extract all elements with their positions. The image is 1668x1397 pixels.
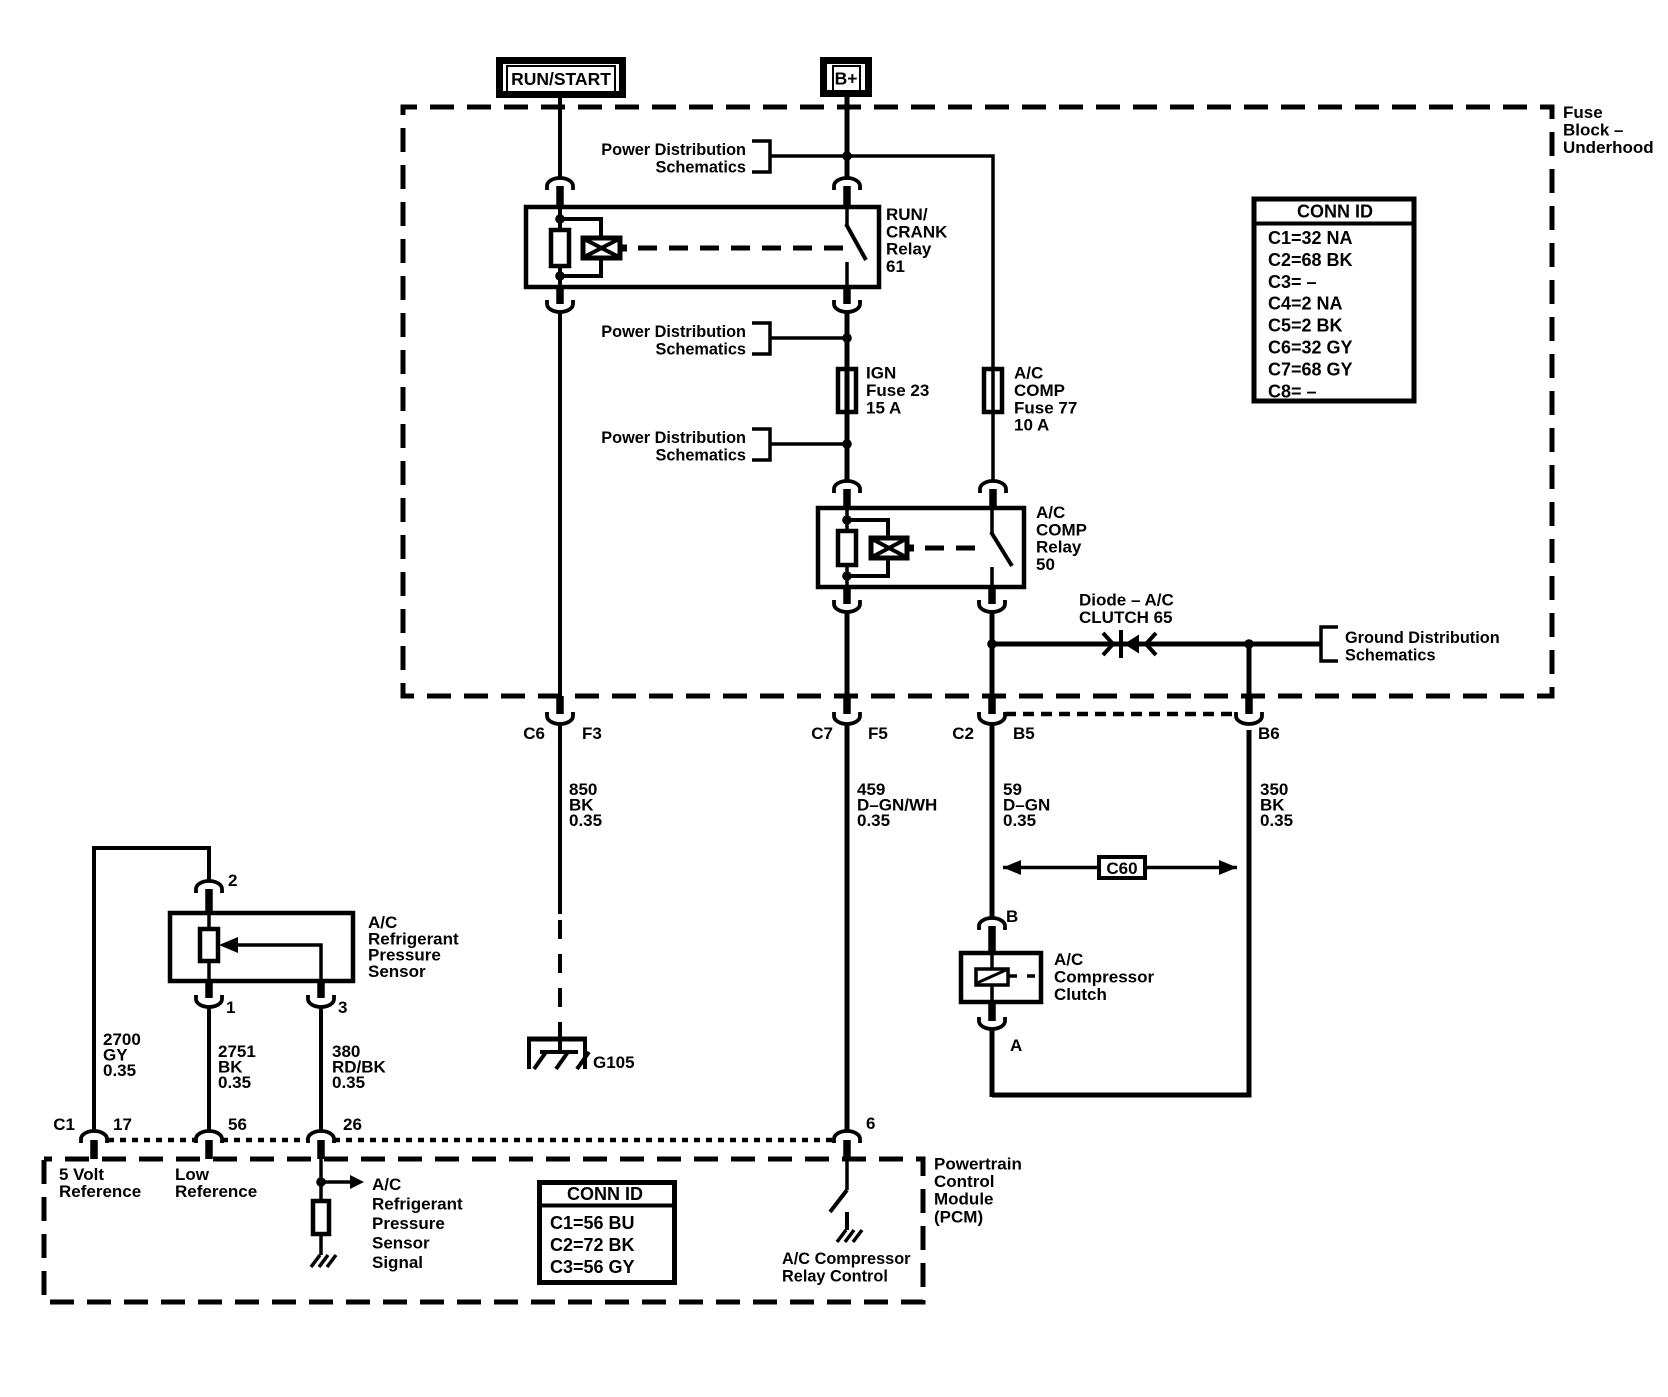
svg-text:Schematics: Schematics: [1345, 647, 1436, 665]
svg-text:C3= –: C3= –: [1268, 272, 1317, 292]
svg-text:26: 26: [343, 1115, 362, 1134]
svg-text:F5: F5: [868, 724, 888, 743]
svg-text:Diode – A/C: Diode – A/C: [1079, 591, 1174, 610]
svg-text:A/C: A/C: [1014, 364, 1043, 383]
svg-text:3: 3: [338, 998, 347, 1017]
svg-text:B5: B5: [1013, 724, 1035, 743]
svg-text:C8= –: C8= –: [1268, 381, 1317, 401]
svg-text:0.35: 0.35: [857, 811, 890, 830]
svg-text:C2=72 BK: C2=72 BK: [550, 1235, 635, 1255]
svg-text:Fuse: Fuse: [1563, 103, 1603, 122]
svg-text:Control: Control: [934, 1172, 994, 1191]
svg-text:B6: B6: [1258, 724, 1280, 743]
svg-text:B: B: [1006, 907, 1018, 926]
svg-text:CONN ID: CONN ID: [567, 1184, 643, 1204]
svg-text:0.35: 0.35: [332, 1073, 365, 1092]
svg-text:C6: C6: [523, 724, 545, 743]
svg-text:G105: G105: [593, 1053, 635, 1072]
svg-text:C4=2 NA: C4=2 NA: [1268, 294, 1343, 314]
svg-text:61: 61: [886, 257, 905, 276]
svg-text:Reference: Reference: [175, 1182, 257, 1201]
svg-text:Relay: Relay: [1036, 538, 1082, 557]
svg-text:C3=56 GY: C3=56 GY: [550, 1257, 635, 1277]
svg-text:IGN: IGN: [866, 364, 896, 383]
svg-text:A/C Compressor: A/C Compressor: [782, 1250, 911, 1268]
svg-text:17: 17: [113, 1115, 132, 1134]
svg-text:RUN/START: RUN/START: [511, 69, 611, 89]
svg-text:RUN/: RUN/: [886, 205, 928, 224]
svg-text:Fuse 23: Fuse 23: [866, 381, 929, 400]
svg-text:Relay: Relay: [886, 240, 932, 259]
svg-text:C5=2 BK: C5=2 BK: [1268, 316, 1343, 336]
svg-text:Power Distribution: Power Distribution: [601, 323, 746, 341]
svg-text:Pressure: Pressure: [372, 1214, 445, 1233]
svg-text:Sensor: Sensor: [368, 962, 426, 981]
svg-text:0.35: 0.35: [218, 1073, 251, 1092]
svg-text:B+: B+: [835, 69, 858, 89]
svg-text:Power Distribution: Power Distribution: [601, 141, 746, 159]
svg-text:Ground Distribution: Ground Distribution: [1345, 629, 1500, 647]
svg-text:Powertrain: Powertrain: [934, 1155, 1022, 1174]
svg-text:0.35: 0.35: [1003, 811, 1036, 830]
svg-text:C1=56 BU: C1=56 BU: [550, 1213, 635, 1233]
svg-text:Reference: Reference: [59, 1182, 141, 1201]
svg-text:A/C: A/C: [372, 1175, 401, 1194]
svg-text:F3: F3: [582, 724, 602, 743]
svg-text:Fuse 77: Fuse 77: [1014, 398, 1077, 417]
svg-text:A/C: A/C: [1054, 950, 1083, 969]
svg-text:C1=32 NA: C1=32 NA: [1268, 228, 1353, 248]
svg-text:C60: C60: [1106, 859, 1137, 878]
svg-text:COMP: COMP: [1014, 381, 1065, 400]
svg-text:Refrigerant: Refrigerant: [372, 1195, 463, 1214]
svg-text:C7: C7: [811, 724, 833, 743]
svg-text:CONN ID: CONN ID: [1297, 202, 1373, 222]
svg-text:A: A: [1010, 1036, 1022, 1055]
svg-text:Schematics: Schematics: [655, 159, 746, 177]
svg-text:15 A: 15 A: [866, 398, 901, 417]
svg-text:Relay Control: Relay Control: [782, 1268, 888, 1286]
svg-text:C1: C1: [53, 1115, 75, 1134]
svg-text:COMP: COMP: [1036, 520, 1087, 539]
svg-text:Compressor: Compressor: [1054, 967, 1155, 986]
svg-text:C2: C2: [952, 724, 974, 743]
svg-text:Underhood: Underhood: [1563, 138, 1654, 157]
svg-text:CLUTCH 65: CLUTCH 65: [1079, 608, 1173, 627]
svg-text:(PCM): (PCM): [934, 1207, 983, 1226]
svg-text:Block –: Block –: [1563, 121, 1623, 140]
svg-text:CRANK: CRANK: [886, 222, 948, 241]
svg-text:1: 1: [226, 998, 235, 1017]
svg-text:C7=68 GY: C7=68 GY: [1268, 359, 1353, 379]
svg-text:C2=68 BK: C2=68 BK: [1268, 250, 1353, 270]
svg-text:0.35: 0.35: [1260, 811, 1293, 830]
svg-text:Signal: Signal: [372, 1253, 423, 1272]
svg-text:Module: Module: [934, 1190, 994, 1209]
svg-text:50: 50: [1036, 555, 1055, 574]
svg-text:0.35: 0.35: [103, 1061, 136, 1080]
svg-text:Sensor: Sensor: [372, 1234, 430, 1253]
svg-text:10 A: 10 A: [1014, 416, 1049, 435]
svg-text:Schematics: Schematics: [655, 341, 746, 359]
svg-text:Clutch: Clutch: [1054, 985, 1107, 1004]
svg-text:56: 56: [228, 1115, 247, 1134]
svg-text:A/C: A/C: [1036, 503, 1065, 522]
svg-text:Schematics: Schematics: [655, 447, 746, 465]
svg-text:Power Distribution: Power Distribution: [601, 429, 746, 447]
svg-text:0.35: 0.35: [569, 811, 602, 830]
svg-text:6: 6: [866, 1114, 875, 1133]
svg-text:2: 2: [228, 871, 237, 890]
svg-text:C6=32 GY: C6=32 GY: [1268, 338, 1353, 358]
